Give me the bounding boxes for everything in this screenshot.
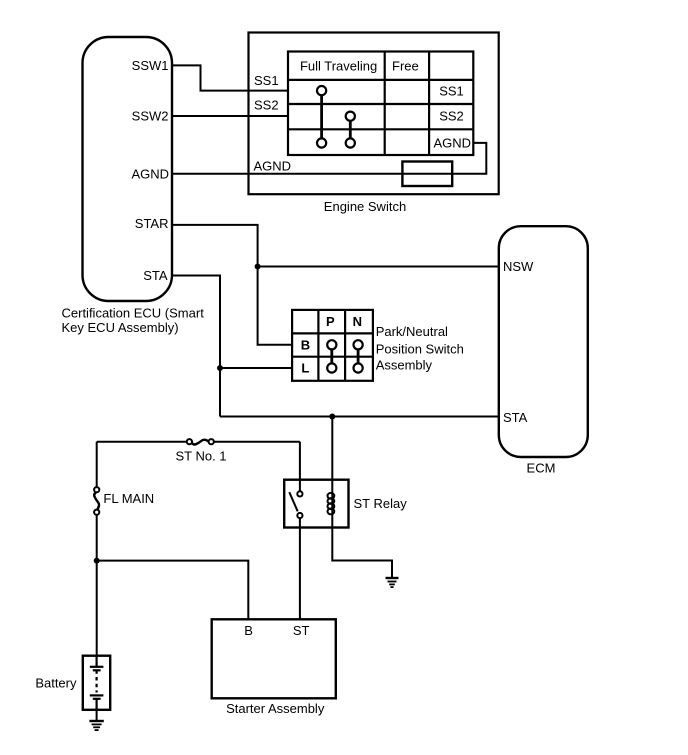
engine switch contact table xyxy=(288,52,473,156)
switch bar N column xyxy=(357,347,360,366)
svg-text:FL MAIN: FL MAIN xyxy=(103,491,154,506)
ECM U2 xyxy=(499,226,588,457)
svg-text:SS1: SS1 xyxy=(254,73,279,88)
wire battery feed top xyxy=(97,441,188,443)
park/neutral contact circles xyxy=(327,340,363,372)
svg-text:SS1: SS1 xyxy=(439,83,464,98)
svg-text:AGND: AGND xyxy=(131,166,169,181)
svg-text:SS2: SS2 xyxy=(254,98,279,113)
svg-text:Engine Switch: Engine Switch xyxy=(324,199,406,214)
noise filter block on AGND xyxy=(402,162,452,187)
node junction battery/starter B xyxy=(94,558,100,564)
svg-text:Position Switch: Position Switch xyxy=(376,341,464,356)
svg-text:L: L xyxy=(301,361,309,376)
svg-text:P: P xyxy=(326,314,335,329)
svg-text:Park/Neutral: Park/Neutral xyxy=(376,324,448,339)
svg-text:Starter Assembly: Starter Assembly xyxy=(226,701,325,716)
engine switch SW1 outer box xyxy=(249,33,499,195)
svg-text:Certification ECU (Smart: Certification ECU (Smart xyxy=(62,305,205,320)
svg-text:ST Relay: ST Relay xyxy=(354,496,408,511)
switch contact circles xyxy=(317,86,355,148)
svg-text:B: B xyxy=(301,337,310,352)
battery BAT1 xyxy=(83,656,110,710)
certification ECU U1 xyxy=(83,37,173,301)
relay coil xyxy=(328,493,335,514)
svg-text:SSW2: SSW2 xyxy=(132,109,169,124)
svg-text:Battery: Battery xyxy=(35,675,77,690)
svg-text:Free: Free xyxy=(392,58,419,73)
svg-text:Full Traveling: Full Traveling xyxy=(300,58,377,73)
ground (relay coil) xyxy=(386,578,399,587)
svg-text:SS2: SS2 xyxy=(439,109,464,124)
wire to starter B xyxy=(97,561,249,620)
wire SSW1 to SS1 xyxy=(172,65,288,90)
relay contact arm xyxy=(289,492,297,511)
ground (battery) xyxy=(89,721,103,730)
svg-text:ECM: ECM xyxy=(527,460,556,475)
svg-text:NSW: NSW xyxy=(503,259,534,274)
wire SSW2 to SS2 xyxy=(172,115,288,117)
relay contact circles xyxy=(297,491,302,518)
fuse ST No. 1 xyxy=(187,439,214,444)
svg-text:AGND: AGND xyxy=(254,159,292,174)
svg-text:B: B xyxy=(244,623,253,638)
svg-text:Key ECU Assembly): Key ECU Assembly) xyxy=(62,320,179,335)
relay ST Relay K1 xyxy=(284,480,348,528)
fuse FL MAIN xyxy=(94,487,99,515)
svg-text:STA: STA xyxy=(143,268,168,283)
wire relay coil feed and ground run xyxy=(332,417,392,578)
wire relay switch to starter ST xyxy=(299,442,301,492)
node junction STAR/NSW xyxy=(255,264,261,270)
wire battery to ground xyxy=(96,710,98,721)
battery internal symbol xyxy=(90,656,104,710)
starter assembly M1 xyxy=(212,619,336,698)
wire STA from ECU xyxy=(172,276,220,417)
node junction STA/L xyxy=(217,365,223,371)
svg-text:ST: ST xyxy=(293,623,310,638)
switch bar SS2 column xyxy=(349,119,352,141)
svg-text:N: N xyxy=(353,314,362,329)
svg-text:STAR: STAR xyxy=(135,216,169,231)
park/neutral position switch table xyxy=(292,310,373,381)
node junction STA/relay-coil xyxy=(329,414,335,420)
switch bar P column xyxy=(330,347,333,366)
svg-text:SSW1: SSW1 xyxy=(132,58,169,73)
wire left vertical to battery xyxy=(96,442,98,488)
svg-text:ST No. 1: ST No. 1 xyxy=(175,448,226,463)
svg-text:Assembly: Assembly xyxy=(376,358,433,373)
svg-text:AGND: AGND xyxy=(434,135,472,150)
wire STA to ECM xyxy=(220,416,499,418)
switch bar SS1 column xyxy=(320,93,323,141)
svg-text:STA: STA xyxy=(503,410,528,425)
wire NSW branch xyxy=(258,266,499,268)
wire to park/neutral L xyxy=(220,367,292,369)
wire AGND net xyxy=(172,143,486,174)
wire STAR to park/neutral B xyxy=(172,225,292,345)
